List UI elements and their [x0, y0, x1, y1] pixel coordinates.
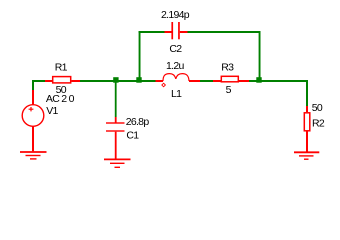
resistor R3 left lead: [213, 80, 221, 82]
inductor L1 winding arcs: [163, 74, 189, 81]
resistor R2 top lead: [306, 106, 308, 112]
wire: V1 top lead red: [32, 90, 34, 105]
wire: R2 branch green vertical: [306, 80, 308, 106]
capacitor C2 left lead: [165, 31, 172, 33]
wire: C1 branch green vertical: [115, 82, 117, 117]
wire: main horizontal net, left green segment from V1 corner to R1: [32, 80, 45, 82]
wire: V1 bottom lead red: [32, 126, 34, 151]
node junction J1 (C1 tap): [113, 77, 118, 83]
resistor R2 body: [304, 113, 310, 131]
voltage source V1 circle: [22, 105, 44, 127]
capacitor C2 right plate: [178, 22, 180, 39]
svg-text:26.8p: 26.8p: [126, 116, 150, 128]
wire: green between L1 and R3: [200, 80, 213, 82]
wire: C2 right vertical green riser: [259, 31, 261, 82]
capacitor C1 bottom plate: [106, 130, 125, 131]
wire: main horizontal green between R1 and L1: [80, 80, 156, 82]
svg-text:2.194p: 2.194p: [161, 9, 190, 21]
wire: C2 top right green segment: [188, 31, 261, 33]
ground symbol under C1: [104, 159, 131, 167]
svg-text:50: 50: [312, 102, 323, 114]
capacitor C2 left plate: [171, 22, 173, 39]
node junction J3 (C2 right tap): [256, 77, 261, 83]
svg-text:L1: L1: [171, 88, 182, 100]
wire: V1 top vertical green segment: [32, 80, 34, 90]
ground symbol under V1: [20, 152, 47, 159]
capacitor C2 right lead: [180, 31, 188, 33]
resistor R3 body: [221, 76, 238, 82]
node junction J2 (C2 left tap): [136, 77, 141, 83]
svg-text:R2: R2: [312, 117, 325, 129]
wire: green from R3 through J3 to R2 corner: [249, 80, 308, 82]
svg-text:C1: C1: [126, 129, 139, 141]
resistor R1 right lead: [72, 80, 81, 82]
capacitor C1 top plate: [106, 122, 125, 123]
svg-text:V1: V1: [46, 105, 58, 117]
svg-text:R1: R1: [55, 62, 68, 74]
svg-text:5: 5: [226, 84, 232, 96]
inductor L1 left lead: [156, 80, 164, 82]
capacitor C1 top lead: [115, 117, 117, 123]
wire: C2 left vertical green riser: [139, 31, 141, 82]
svg-text:C2: C2: [169, 43, 182, 55]
inductor L1 right lead: [189, 80, 200, 82]
voltage source V1 plus sign: [29, 107, 34, 111]
inductor L1 polarity diamond marker: [162, 83, 166, 87]
capacitor C1 bottom lead: [115, 132, 117, 159]
resistor R1 body: [53, 77, 71, 83]
ground symbol under R2: [294, 152, 319, 159]
resistor R1 left lead: [45, 80, 53, 82]
resistor R3 right lead: [239, 80, 249, 82]
svg-text:R3: R3: [221, 62, 234, 74]
resistor R2 bottom lead: [306, 132, 308, 153]
wire: C2 top left green segment: [139, 31, 165, 33]
svg-text:AC 2 0: AC 2 0: [46, 93, 75, 105]
svg-text:1.2u: 1.2u: [166, 60, 184, 72]
